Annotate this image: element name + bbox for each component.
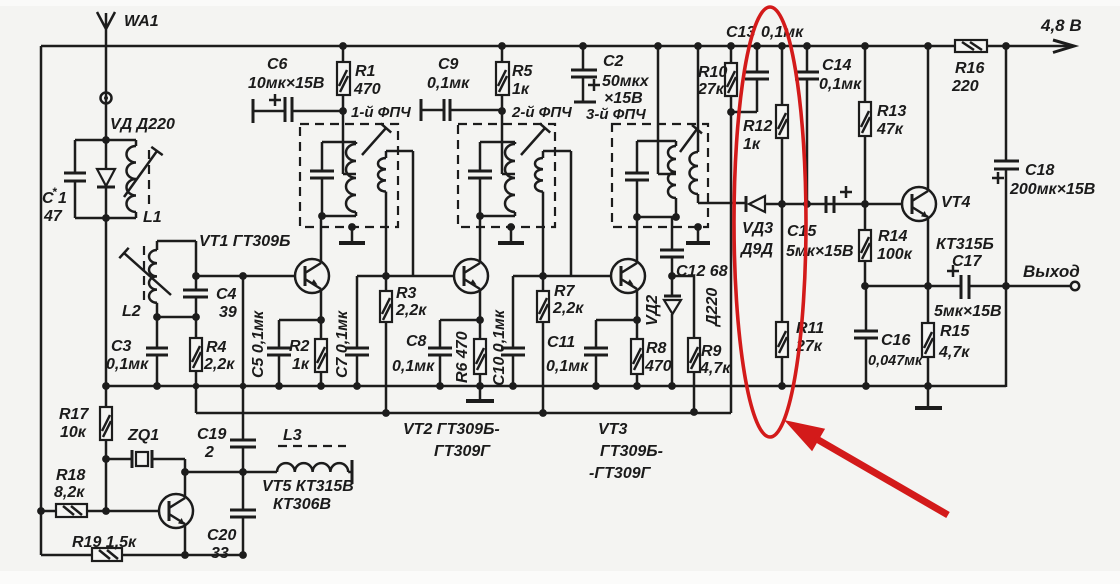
svg-text:C6: C6 (267, 56, 288, 73)
filter box 2 (458, 124, 555, 227)
wire filter3 input (658, 46, 676, 174)
capacitor C16 (865, 286, 868, 386)
wire L2 bottom to C4 (157, 316, 196, 319)
transistor VT1 GT309B (295, 259, 329, 293)
svg-text:4,8 В: 4,8 В (1040, 16, 1082, 35)
wire filter1 input (343, 111, 356, 174)
svg-text:R14: R14 (878, 228, 907, 245)
svg-text:470: 470 (644, 358, 672, 375)
wire filter1 tank bottom (322, 215, 356, 218)
wire filter2 tank left (479, 142, 482, 216)
svg-text:Д9Д: Д9Д (739, 241, 773, 258)
svg-text:2-й ФПЧ: 2-й ФПЧ (511, 104, 572, 121)
resistor R11 27k (781, 204, 784, 386)
wire emitter to C5 (279, 319, 321, 322)
svg-text:C20: C20 (207, 527, 236, 544)
svg-text:R17: R17 (59, 406, 89, 423)
svg-text:0,1мк: 0,1мк (106, 356, 149, 373)
diode VD2 D220 (671, 276, 674, 386)
wire top supply rail (41, 45, 1072, 48)
resistor R8 470 (636, 320, 639, 386)
node 4,8V arrow (1053, 40, 1074, 53)
inductor L2 (156, 241, 159, 250)
wire VT2 collector (479, 216, 482, 263)
svg-text:50мкх: 50мкх (602, 73, 650, 90)
capacitor C10 (512, 276, 515, 386)
resistor R3 (385, 276, 388, 413)
resistor R15 4,7k (927, 286, 930, 386)
svg-text:4,7к: 4,7к (938, 344, 970, 361)
capacitor C2 electrolytic (582, 46, 585, 101)
svg-text:0,1мк: 0,1мк (392, 358, 435, 375)
wire antenna column down (105, 218, 108, 386)
svg-text:R8: R8 (646, 340, 667, 357)
wire VT4 collector (927, 46, 930, 191)
wire VT2 base bias (357, 275, 454, 278)
wire filter1 secondary top out (386, 151, 413, 276)
inductor L1 (135, 140, 138, 146)
capacitor C11 (595, 320, 598, 386)
svg-text:C12 68: C12 68 (676, 263, 728, 280)
svg-text:47к: 47к (876, 121, 904, 138)
wire VT2 emitter (479, 289, 482, 320)
capacitor C12 68 (671, 217, 674, 276)
filter box 1 (300, 124, 398, 227)
svg-text:R19 1,5к: R19 1,5к (72, 534, 137, 551)
svg-text:C10 0,1мк: C10 0,1мк (491, 309, 508, 386)
capacitor C8 (439, 320, 442, 386)
inductor L3 (277, 463, 348, 472)
svg-text:220: 220 (951, 78, 979, 95)
wire emitter to C8 (440, 319, 480, 322)
svg-text:R6 470: R6 470 (454, 331, 471, 383)
node coax connector (101, 93, 112, 104)
resistor R9 (672, 276, 694, 412)
resistor R6 470 (479, 320, 482, 386)
resistor R19 1,5k (92, 548, 122, 561)
wire VT1 emitter (320, 289, 323, 320)
wire ground rail (106, 385, 1006, 388)
svg-text:2: 2 (204, 444, 214, 461)
transistor VT5 KT315V (159, 494, 193, 528)
resistor R5 1k (501, 46, 504, 111)
svg-text:C4: C4 (216, 286, 237, 303)
svg-text:1: 1 (58, 190, 67, 207)
filter1 tuning arrow (362, 123, 391, 155)
wire VT1 collector (320, 216, 323, 263)
wire left border (40, 46, 43, 555)
resistor R1 470 (342, 46, 345, 111)
svg-text:L1: L1 (143, 209, 162, 226)
wire AGC feedback riser (730, 112, 733, 413)
svg-text:100к: 100к (877, 246, 913, 263)
svg-text:C8: C8 (406, 333, 427, 350)
ground main rail (479, 386, 482, 400)
svg-text:C19: C19 (197, 426, 226, 443)
svg-text:R12: R12 (743, 118, 772, 135)
wire output line (865, 285, 1071, 288)
filter2 tuning arrow (521, 123, 550, 155)
svg-text:0,047мк: 0,047мк (868, 353, 923, 369)
capacitor C5 (278, 320, 281, 386)
resistor R16 (955, 40, 987, 52)
svg-text:0,1мк: 0,1мк (761, 24, 804, 41)
crystal ZQ1 (106, 459, 185, 511)
wire filter1 tank top (322, 141, 356, 144)
diode VD3 D9D (745, 196, 748, 212)
svg-text:10к: 10к (60, 424, 87, 441)
svg-text:R13: R13 (877, 103, 906, 120)
svg-text:C15: C15 (787, 223, 817, 240)
svg-text:КТ306В: КТ306В (273, 496, 331, 513)
svg-text:39: 39 (219, 304, 237, 321)
resistor R13 47k (864, 46, 867, 204)
svg-text:КТ315Б: КТ315Б (936, 236, 994, 253)
transistor VT3 GT309B (611, 259, 645, 293)
svg-text:0,1мк: 0,1мк (546, 358, 589, 375)
svg-text:47: 47 (43, 208, 63, 225)
svg-text:VT2 ГТ309Б-: VT2 ГТ309Б- (403, 421, 500, 438)
ground filter3 shield (694, 223, 702, 231)
svg-text:R15: R15 (940, 323, 970, 340)
inductor filter2 secondary (542, 151, 545, 158)
wire emitter to C11 (596, 319, 637, 322)
svg-text:10мк×15В: 10мк×15В (248, 75, 324, 92)
svg-text:0,1мк: 0,1мк (819, 76, 862, 93)
transistor VT4 KT315B (902, 187, 936, 221)
transistor VT2 GT309B (454, 259, 488, 293)
svg-text:VT1 ГТ309Б: VT1 ГТ309Б (199, 233, 290, 250)
wire AGC lower rail (196, 412, 731, 415)
svg-text:VД2: VД2 (644, 295, 661, 326)
svg-text:VT4: VT4 (941, 194, 970, 211)
inductor filter3 secondary (697, 46, 700, 152)
wire oscillator output (185, 471, 277, 474)
svg-text:5мк×15В: 5мк×15В (934, 303, 1002, 320)
resistor R10 27k (730, 46, 733, 112)
node rail junctions (193, 383, 200, 390)
svg-text:C16: C16 (881, 332, 910, 349)
svg-text:R5: R5 (512, 63, 534, 80)
svg-text:C5 0,1мк: C5 0,1мк (250, 310, 267, 378)
svg-text:C9: C9 (438, 56, 459, 73)
svg-text:C17: C17 (952, 253, 982, 270)
wire filter3 tank bottom (637, 216, 678, 219)
svg-text:R3: R3 (396, 285, 417, 302)
svg-text:L3: L3 (283, 427, 302, 444)
capacitor filter3 tank (625, 173, 649, 180)
svg-text:1к: 1к (512, 81, 530, 98)
capacitor C9 (420, 99, 423, 121)
svg-text:R9: R9 (701, 343, 722, 360)
svg-text:VД Д220: VД Д220 (110, 116, 175, 133)
capacitor C20 33 (242, 472, 245, 555)
svg-text:ГТ309Б-: ГТ309Б- (600, 443, 663, 460)
resistor R4 (195, 317, 198, 413)
svg-text:2,2к: 2,2к (203, 356, 235, 373)
wire filter2 secondary top out (543, 151, 571, 276)
svg-text:R4: R4 (206, 339, 227, 356)
svg-text:1-й ФПЧ: 1-й ФПЧ (351, 104, 411, 121)
wire VT1 base (196, 275, 295, 278)
svg-text:R10: R10 (698, 64, 727, 81)
svg-text:VT3: VT3 (598, 421, 627, 438)
ground filter1 shield (348, 223, 356, 231)
svg-text:C3: C3 (111, 338, 132, 355)
svg-text:ГТ309Г: ГТ309Г (434, 443, 491, 460)
svg-text:5мк×15В: 5мк×15В (786, 243, 854, 260)
capacitor C6 electrolytic (252, 99, 255, 123)
svg-text:4,7к: 4,7к (699, 360, 731, 377)
ground output rail (927, 386, 930, 407)
resistor R12 1k (781, 46, 784, 204)
svg-text:0,1мк: 0,1мк (427, 75, 470, 92)
svg-text:R16: R16 (955, 60, 984, 77)
capacitor C13 (731, 46, 757, 112)
ground filter2 shield (507, 223, 515, 231)
svg-text:Выход: Выход (1023, 262, 1080, 281)
wire filter2 tank bottom (480, 215, 515, 218)
wire tank bottom (75, 217, 136, 220)
capacitor C3 (156, 317, 159, 386)
capacitor C15 electrolytic (826, 196, 834, 213)
svg-text:8,2к: 8,2к (54, 484, 85, 501)
inductor filter1 primary (355, 142, 358, 216)
capacitor C*1 (74, 140, 77, 218)
wire VT5 collector (184, 472, 187, 498)
svg-text:27к: 27к (697, 81, 725, 98)
svg-text:R1: R1 (355, 63, 376, 80)
wire filter2 input (502, 111, 515, 174)
wire detector line (698, 203, 902, 204)
wire tank top (75, 139, 136, 142)
oscillator resistor R17 10k (105, 386, 108, 459)
inductor filter1 secondary (385, 151, 388, 158)
capacitor filter1 tank (310, 171, 334, 178)
capacitor C14 (806, 46, 809, 204)
node output terminal (1071, 282, 1079, 290)
svg-text:2,2к: 2,2к (395, 302, 427, 319)
wire VT3 collector (636, 217, 639, 263)
diode VD1 D220 (105, 140, 108, 218)
wire L2 box top (157, 240, 196, 243)
svg-text:1к: 1к (743, 136, 761, 153)
svg-text:WA1: WA1 (124, 13, 159, 30)
resistor R14 100k (864, 204, 867, 286)
wire filter2 tank top (480, 141, 515, 144)
svg-text:3-й ФПЧ: 3-й ФПЧ (586, 106, 646, 123)
filter3 tuning arrow (680, 125, 702, 152)
resistor R18 8,2k (37, 507, 45, 515)
wire filter1 tank left (321, 142, 324, 216)
svg-text:VT5 КТ315В: VT5 КТ315В (262, 478, 354, 495)
capacitor C19 2 (242, 276, 245, 472)
node tank joints (102, 136, 110, 144)
wire filter3 tank top (637, 140, 676, 143)
svg-text:Д220: Д220 (704, 288, 721, 328)
svg-text:C11: C11 (547, 334, 575, 351)
wire filter3 tank left (636, 141, 639, 217)
svg-text:33: 33 (211, 545, 229, 562)
capacitor C7 (356, 276, 359, 386)
wire VT4 emitter (927, 217, 930, 286)
svg-text:C2: C2 (603, 53, 624, 70)
svg-text:R7: R7 (554, 283, 576, 300)
svg-text:C18: C18 (1025, 162, 1054, 179)
svg-text:C7 0,1мк: C7 0,1мк (334, 310, 351, 378)
annotation red arrow (784, 420, 825, 451)
svg-text:R2: R2 (289, 338, 310, 355)
resistor R2 (320, 320, 323, 386)
svg-text:L2: L2 (122, 303, 141, 320)
capacitor C17 electrolytic (961, 275, 969, 299)
capacitor C4 39 (183, 290, 208, 297)
antenna WA1 (97, 12, 115, 140)
svg-text:C14: C14 (822, 57, 851, 74)
svg-text:R18: R18 (56, 467, 85, 484)
svg-text:ZQ1: ZQ1 (127, 427, 159, 444)
wire VT3 base bias (513, 275, 611, 278)
filter box 3 (612, 124, 708, 227)
svg-text:-ГТ309Г: -ГТ309Г (589, 465, 652, 482)
capacitor C18 electrolytic (1005, 46, 1008, 387)
wire VT5 emitter (184, 524, 187, 555)
svg-text:1к: 1к (292, 356, 310, 373)
svg-text:470: 470 (353, 81, 381, 98)
svg-text:×15В: ×15В (604, 90, 643, 107)
inductor filter2 primary (514, 142, 517, 216)
annotation red ellipse (734, 7, 806, 437)
svg-text:VД3: VД3 (742, 220, 773, 237)
inductor filter3 primary (675, 141, 678, 217)
svg-text:200мк×15В: 200мк×15В (1009, 181, 1095, 198)
wire VT3 emitter (636, 289, 639, 320)
wire L2 right branch (195, 241, 198, 317)
wire bottom rail (41, 554, 243, 557)
svg-text:2,2к: 2,2к (552, 300, 584, 317)
resistor R7 (542, 276, 545, 413)
capacitor filter2 tank (468, 171, 492, 178)
